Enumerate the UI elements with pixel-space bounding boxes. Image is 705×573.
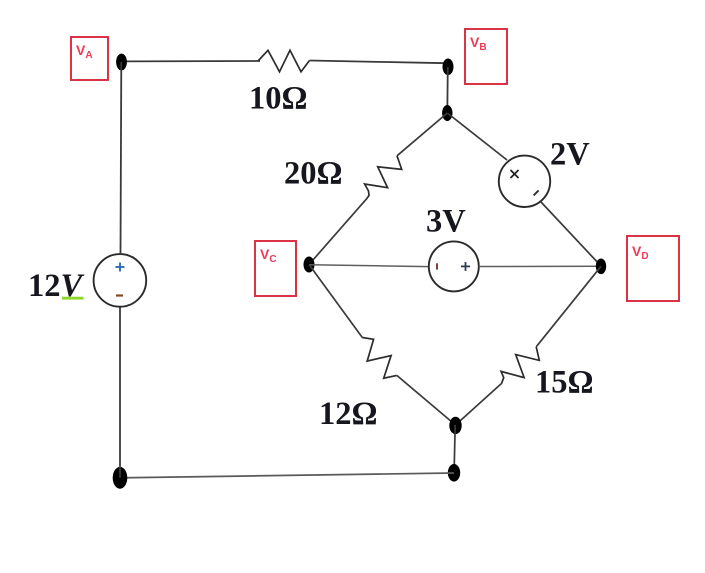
svg-text:15Ω: 15Ω xyxy=(535,365,594,401)
wire source V3 to node D xyxy=(479,265,597,267)
node box VD xyxy=(627,236,679,301)
wire bridge bottom node to resistor R4 xyxy=(456,383,502,425)
source V2 minus mark xyxy=(534,190,539,195)
wire bridge top node to source V2 xyxy=(447,113,507,160)
resistor R4 15ohm zigzag xyxy=(501,347,539,384)
wire resistor R4 to node D xyxy=(536,266,601,347)
node box VB xyxy=(465,29,507,84)
wire resistor R2 lower end to node C xyxy=(309,199,367,265)
wire bottom rail xyxy=(120,473,454,478)
node B junction dot xyxy=(443,59,454,76)
resistor R2 20ohm zigzag xyxy=(365,156,402,199)
bridge bottom junction dot xyxy=(449,417,461,434)
svg-text:20Ω: 20Ω xyxy=(284,156,343,192)
source V1 12V circle xyxy=(94,254,147,307)
wire source V2 to node D xyxy=(541,202,601,266)
wire node B down to bridge top node xyxy=(446,67,449,112)
resistor R1 10ohm zigzag xyxy=(258,50,310,72)
bottom rail junction dot xyxy=(448,464,460,482)
source V1 plus mark xyxy=(116,263,125,272)
node D junction dot xyxy=(596,259,606,275)
bridge top junction dot xyxy=(442,105,452,121)
source V3 minus mark xyxy=(436,263,438,269)
svg-text:10Ω: 10Ω xyxy=(249,81,308,117)
svg-text:2V: 2V xyxy=(550,137,590,173)
source V1 minus mark xyxy=(116,294,123,296)
green underline under V of 12V xyxy=(62,297,84,300)
source V2 plus mark (rotated x) xyxy=(511,170,519,178)
node box VA xyxy=(71,37,108,80)
node A junction dot xyxy=(116,54,127,71)
wire bridge bottom node to bottom rail node xyxy=(454,425,455,472)
wire resistor R1 to node B xyxy=(310,61,447,64)
node C junction dot xyxy=(304,257,315,273)
source V3 3V circle xyxy=(429,241,479,291)
wire bottom left node up to source V1 xyxy=(119,307,121,478)
resistor R3 12ohm zigzag xyxy=(362,338,397,379)
wire node A to resistor R1 xyxy=(122,60,261,62)
wire bridge top node to resistor R2 upper end xyxy=(397,113,447,156)
wire node C to resistor R3 xyxy=(309,265,362,338)
source V3 plus mark xyxy=(461,262,470,271)
node box VC xyxy=(255,241,296,296)
wire node C to source V3 xyxy=(309,265,429,267)
bottom left junction dot xyxy=(113,467,128,489)
svg-text:3V: 3V xyxy=(426,204,466,240)
source V2 2V circle xyxy=(499,156,550,207)
svg-text:12Ω: 12Ω xyxy=(319,396,378,432)
wire source V1 up to node A xyxy=(120,62,123,254)
wire resistor R3 to bridge bottom node xyxy=(397,375,456,425)
